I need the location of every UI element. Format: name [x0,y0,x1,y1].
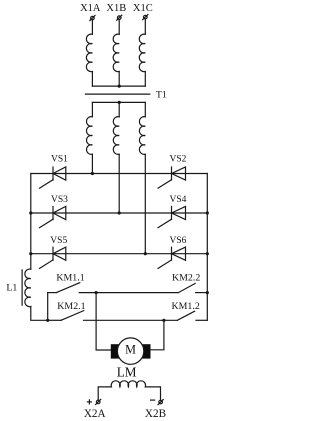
junction right bus rail 2 [206,211,209,214]
wire X1B to T1 primary [118,20,120,35]
svg-text:VS5: VS5 [50,236,67,246]
thyristor VS3 [40,206,66,227]
junction secondary star [118,101,121,104]
junction row2 riser [46,319,49,322]
svg-text:X1A: X1A [80,3,101,14]
svg-text:VS2: VS2 [170,155,187,165]
transformer T1 primary winding C [139,34,145,71]
svg-text:KM1.1: KM1.1 [56,272,84,283]
svg-text:M: M [125,343,136,357]
wire row 1 [79,292,178,294]
transformer T1 primary winding B [113,34,119,71]
terminal X1A [90,16,95,21]
wire secondary A lead [91,102,93,116]
wire secondary B lead [118,102,120,116]
junction row2 motor-right [162,319,165,322]
thyristor VS2 [158,167,186,188]
wire secondary star bus [92,101,145,103]
junction left bus rail 2 [29,211,32,214]
wire rail 3 [31,253,208,255]
terminal X1B [117,15,122,20]
label polarity minus [151,399,155,401]
svg-text:VS3: VS3 [51,195,68,205]
wire rail 2 [31,212,208,214]
transformer T1 secondary winding B [113,117,119,155]
contact KM2.1 [48,311,84,321]
contact KM2.2 [178,283,207,292]
wire primary star bus [92,85,145,87]
svg-text:X1B: X1B [106,3,126,14]
svg-text:VS1: VS1 [51,155,68,165]
inductor L1 [22,269,31,307]
wire phase A to rail 1 [91,154,93,173]
motor M brushes [111,344,151,358]
wire row1 riser [47,293,49,321]
svg-text:X2A: X2A [84,408,106,420]
motor M armature [117,338,143,364]
svg-text:X1C: X1C [133,3,153,14]
svg-text:L1: L1 [6,283,17,294]
junction row1 motor-left [95,291,98,294]
wire left bus [30,174,32,270]
wire primary B lead [118,72,120,87]
wire right bus [206,174,208,321]
svg-text:LM: LM [117,364,137,379]
svg-text:KM1.2: KM1.2 [172,301,200,312]
junction right bus row 1 [206,291,209,294]
wire motor left lead [96,293,111,350]
transformer T1 secondary winding C [139,117,145,155]
terminal X2B [158,400,163,405]
wire rail 1 [31,173,208,175]
wire secondary C lead [144,102,146,116]
svg-text:KM2.1: KM2.1 [57,301,85,312]
transformer T1 core [85,93,149,95]
thyristor VS5 [40,247,66,268]
thyristor VS6 [158,247,186,268]
transformer T1 primary winding A [86,34,92,71]
wire primary C lead [144,72,146,87]
wire phase C to rail 3 [144,154,146,254]
wire motor right lead [150,320,164,350]
svg-text:T1: T1 [156,89,167,100]
thyristor VS1 [40,167,66,188]
wire left bus bottom to row 2 [31,307,48,321]
label polarity plus [87,400,91,404]
junction phase B rail 2 [118,211,121,214]
contact KM1.2 [177,311,207,320]
wire X1A to T1 primary [91,20,93,34]
junction left bus rail 3 [29,252,32,255]
svg-text:X2B: X2B [145,408,166,420]
terminal X2A [96,399,101,404]
svg-text:VS6: VS6 [170,236,187,246]
transformer T1 secondary winding A [87,117,93,155]
inductor LM [98,381,160,400]
junction right bus rail 3 [206,252,209,255]
terminal X1C [143,15,148,20]
contact KM1.1 [48,283,80,293]
junction phase A rail 1 [91,172,94,175]
wire row 2 [84,319,178,321]
junction phase C rail 3 [144,252,147,255]
wire X1C to T1 primary [144,19,146,34]
svg-text:VS4: VS4 [170,195,187,205]
wire primary A lead [91,72,93,87]
junction primary star [118,85,121,88]
thyristor VS4 [158,206,186,227]
svg-text:KM2.2: KM2.2 [172,272,200,283]
wire phase B to rail 2 [118,154,120,213]
